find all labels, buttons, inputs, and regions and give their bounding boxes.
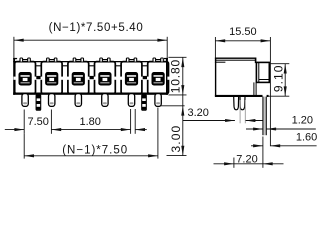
terminal cell 5: wall notches: [120, 77, 143, 80]
terminal cell 6: screw head: [152, 72, 165, 86]
channel notch 2: [63, 65, 68, 67]
channel tick between cells 3-4: [90, 76, 94, 79]
terminal cell 2: cavity outline: [41, 58, 62, 94]
svg-text:(N−1)*7.50: (N−1)*7.50: [62, 144, 128, 156]
dimension 1.20 pin thickness: [246, 115, 316, 131]
dimension 7.20 hook-to-pin: [214, 137, 284, 168]
channel notch 3: [89, 65, 94, 67]
dimension 15.50 side width: [215, 26, 270, 146]
dimension 1.60 pin offset: [251, 132, 317, 148]
dimension (N-1)*7.50+5.40 overall width: [14, 22, 167, 58]
side view: body outline: [215, 58, 269, 98]
channel notch 5: [143, 65, 148, 67]
svg-text:1.60: 1.60: [296, 132, 317, 144]
front view: terminal block body outline: [13, 58, 168, 95]
dimension 3.20 hook offset: [183, 100, 263, 123]
dimension 3.00 pin standoff: [160, 106, 187, 156]
svg-text:1.80: 1.80: [79, 116, 100, 128]
terminal cell 6: cavity outline: [148, 58, 169, 94]
channel tick between cells 5-6: [143, 76, 147, 79]
front pin 1: [22, 94, 28, 107]
svg-text:10.80: 10.80: [169, 59, 183, 93]
channel tick between cells 1-2: [36, 76, 40, 79]
terminal cell 4: screw head: [98, 72, 111, 86]
side view: wire funnel box: [256, 62, 269, 82]
front pin 6: [155, 94, 161, 107]
front pin 4: [102, 94, 108, 107]
terminal cell 1: wall notches: [14, 77, 37, 80]
dimension 10.80 body height: [168, 57, 186, 155]
dimension 1.80 pin width: [79, 109, 146, 134]
terminal cell 4: wall notches: [93, 77, 116, 80]
terminal cell 1: cavity outline: [15, 58, 36, 94]
front pin 3: [75, 94, 81, 107]
side view: snap hooks: [234, 97, 245, 110]
svg-text:7.20: 7.20: [236, 153, 257, 165]
terminal cell 3: screw head: [72, 72, 85, 86]
terminal cell 6: wall notches: [147, 77, 170, 80]
snap peg 2 (striped): [142, 95, 147, 110]
terminal cell 5: screw head: [125, 72, 138, 86]
svg-text:3.20: 3.20: [187, 107, 208, 119]
svg-text:1.20: 1.20: [292, 115, 313, 127]
terminal cell 2: wall notches: [40, 77, 63, 80]
terminal cell 3: cavity outline: [68, 58, 89, 94]
dimension (N-1)*7.50 pin span: [24, 108, 158, 159]
terminal cell 5: cavity outline: [121, 58, 142, 94]
terminal cell 1: screw head: [19, 72, 32, 86]
front pin 5: [128, 94, 134, 107]
dimension 9.10 funnel height: [269, 64, 290, 96]
svg-text:3.00: 3.00: [169, 125, 183, 153]
svg-text:7.50: 7.50: [27, 116, 48, 128]
svg-text:9.10: 9.10: [271, 64, 285, 92]
dimension 7.50 pitch: [5, 110, 131, 134]
side view: inner wall below box: [254, 82, 256, 95]
side view: solder pin: [263, 97, 266, 136]
front pin 2: [49, 94, 55, 107]
terminal cell 3: wall notches: [67, 77, 90, 80]
channel notch 1: [36, 65, 41, 67]
svg-text:15.50: 15.50: [229, 26, 257, 38]
terminal cell 4: cavity outline: [95, 58, 116, 94]
snap peg 1 (striped): [36, 95, 41, 110]
channel notch 4: [116, 65, 121, 67]
svg-text:(N−1)*7.50+5.40: (N−1)*7.50+5.40: [49, 22, 144, 34]
terminal cell 2: screw head: [45, 72, 58, 86]
